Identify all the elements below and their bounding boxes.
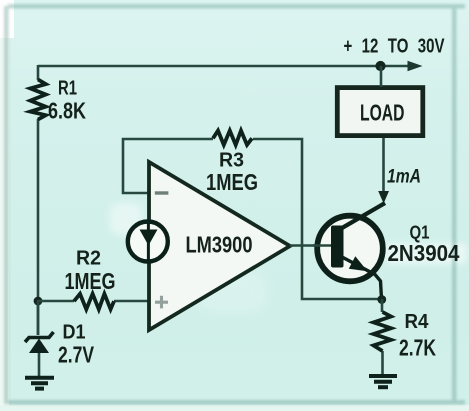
wire LOAD to collector: [382, 138, 385, 193]
op-amp U1 LM3900: [149, 162, 290, 330]
label LOAD: [360, 100, 405, 126]
label R2: [76, 247, 101, 270]
resistor R2: [74, 294, 114, 310]
node supply junction: [375, 61, 385, 71]
node emitter junction: [377, 295, 386, 304]
label 1mA: [387, 167, 421, 188]
current source symbol: [128, 222, 168, 262]
label 2N3904: [388, 240, 460, 266]
zener diode D1: [25, 332, 54, 353]
op-amp minus input mark: [155, 191, 169, 194]
label LM3900: [186, 232, 253, 258]
wire supply to LOAD: [380, 66, 383, 87]
resistor R1: [30, 80, 46, 120]
label 2.7V: [58, 342, 94, 368]
label R3: [219, 149, 244, 172]
svg-text:+ 12 TO 30V: + 12 TO 30V: [344, 36, 445, 58]
resistor R4: [374, 312, 392, 351]
label 1MEG R3: [206, 169, 258, 195]
label R4: [405, 310, 430, 333]
wire R2 row: [38, 300, 149, 303]
transistor Q1: [313, 203, 385, 299]
1mA arrowhead: [378, 191, 389, 204]
op-amp plus input mark: [155, 296, 168, 309]
ground right: [369, 376, 397, 387]
label Q1: [410, 222, 430, 243]
svg-text:R4: R4: [405, 310, 430, 333]
wire zener branch: [38, 300, 39, 376]
svg-text:R2: R2: [76, 247, 101, 270]
wire op-amp output to base: [290, 244, 316, 247]
node left junction: [34, 297, 43, 306]
svg-text:1MEG: 1MEG: [206, 169, 258, 195]
wire left rail: [37, 65, 40, 335]
svg-text:1MEG: 1MEG: [65, 268, 116, 294]
svg-text:R1: R1: [58, 77, 77, 100]
label 6.8K: [48, 98, 86, 124]
supply arrowhead: [408, 61, 423, 71]
ground left: [25, 378, 54, 389]
label R1: [58, 77, 77, 100]
svg-text:1mA: 1mA: [387, 167, 421, 188]
label D1: [63, 321, 86, 344]
label 2.7K: [399, 335, 436, 361]
svg-text:6.8K: 6.8K: [48, 98, 86, 124]
svg-text:LM3900: LM3900: [186, 232, 253, 258]
svg-text:D1: D1: [63, 321, 86, 344]
svg-text:2.7K: 2.7K: [399, 335, 436, 361]
svg-text:2.7V: 2.7V: [58, 342, 94, 368]
label +12 TO 30V: [344, 36, 445, 58]
wire top supply rail: [38, 65, 410, 68]
label 1MEG R2: [65, 268, 116, 294]
svg-text:2N3904: 2N3904: [388, 240, 460, 266]
wire emitter to R4: [381, 299, 384, 375]
resistor R3: [213, 131, 252, 145]
svg-text:LOAD: LOAD: [360, 100, 405, 126]
LOAD box: [337, 88, 423, 136]
wire feedback loop: [123, 139, 378, 299]
